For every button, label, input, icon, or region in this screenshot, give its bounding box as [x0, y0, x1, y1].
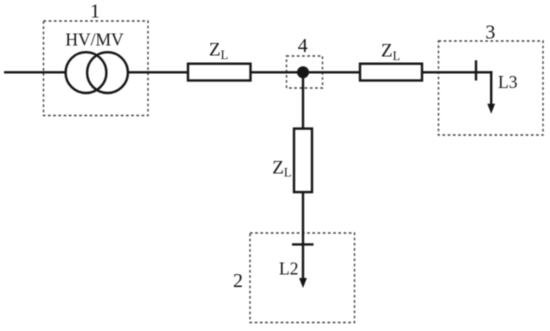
svg-text:L2: L2	[279, 259, 298, 279]
svg-text:HV/MV: HV/MV	[65, 30, 124, 50]
svg-text:3: 3	[485, 21, 495, 43]
svg-text:4: 4	[298, 35, 308, 57]
svg-text:ZL: ZL	[209, 40, 228, 62]
svg-text:1: 1	[90, 1, 100, 23]
svg-text:L3: L3	[498, 72, 518, 92]
svg-text:2: 2	[233, 270, 243, 292]
svg-text:ZL: ZL	[272, 157, 291, 179]
svg-text:ZL: ZL	[381, 41, 400, 63]
